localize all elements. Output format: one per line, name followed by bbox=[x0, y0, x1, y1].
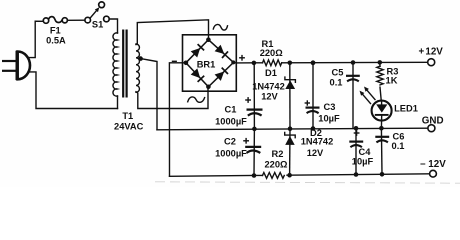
svg-text:T1: T1 bbox=[122, 111, 133, 121]
svg-text:24VAC: 24VAC bbox=[114, 122, 144, 132]
svg-text:0.1: 0.1 bbox=[330, 78, 343, 88]
svg-text:10µF: 10µF bbox=[318, 114, 340, 124]
svg-text:D1: D1 bbox=[265, 68, 277, 78]
svg-text:12V: 12V bbox=[261, 92, 278, 102]
svg-text:10µF: 10µF bbox=[352, 157, 374, 167]
svg-text:LED1: LED1 bbox=[394, 104, 418, 114]
svg-text:BR1: BR1 bbox=[197, 60, 216, 70]
svg-text:C1: C1 bbox=[225, 105, 237, 115]
svg-text:S1: S1 bbox=[92, 19, 103, 29]
svg-text:1N4742: 1N4742 bbox=[301, 137, 334, 147]
svg-text:R2: R2 bbox=[272, 149, 284, 159]
svg-text:F1: F1 bbox=[50, 25, 61, 35]
svg-text:12V: 12V bbox=[428, 159, 446, 170]
svg-text:220Ω: 220Ω bbox=[265, 160, 289, 170]
svg-text:12V: 12V bbox=[425, 46, 443, 57]
svg-text:+: + bbox=[419, 46, 425, 57]
svg-text:C2: C2 bbox=[224, 137, 236, 147]
svg-text:C4: C4 bbox=[359, 147, 372, 157]
svg-text:1K: 1K bbox=[386, 76, 398, 86]
svg-text:GND: GND bbox=[422, 116, 444, 127]
svg-text:1000µF: 1000µF bbox=[215, 149, 247, 159]
svg-text:220Ω: 220Ω bbox=[260, 48, 284, 58]
svg-text:1000µF: 1000µF bbox=[215, 117, 247, 127]
svg-text:12V: 12V bbox=[307, 148, 324, 158]
svg-text:1N4742: 1N4742 bbox=[252, 82, 285, 92]
svg-text:C3: C3 bbox=[324, 102, 336, 112]
svg-text:–: – bbox=[420, 159, 426, 170]
svg-text:0.1: 0.1 bbox=[392, 141, 405, 151]
svg-text:C5: C5 bbox=[332, 68, 344, 78]
svg-text:0.5A: 0.5A bbox=[46, 36, 66, 46]
